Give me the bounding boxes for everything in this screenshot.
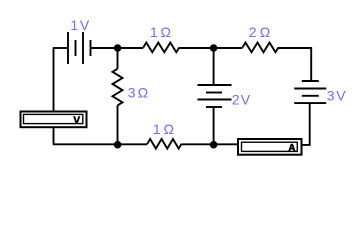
svg-text:1V: 1V	[70, 17, 90, 33]
svg-text:1Ω: 1Ω	[150, 24, 171, 40]
svg-text:2V: 2V	[232, 92, 251, 108]
svg-text:V: V	[73, 116, 80, 127]
svg-text:A: A	[288, 143, 295, 154]
svg-text:1Ω: 1Ω	[153, 121, 174, 137]
svg-text:3V: 3V	[327, 87, 347, 103]
svg-text:2Ω: 2Ω	[249, 24, 271, 40]
svg-text:3Ω: 3Ω	[128, 84, 148, 100]
